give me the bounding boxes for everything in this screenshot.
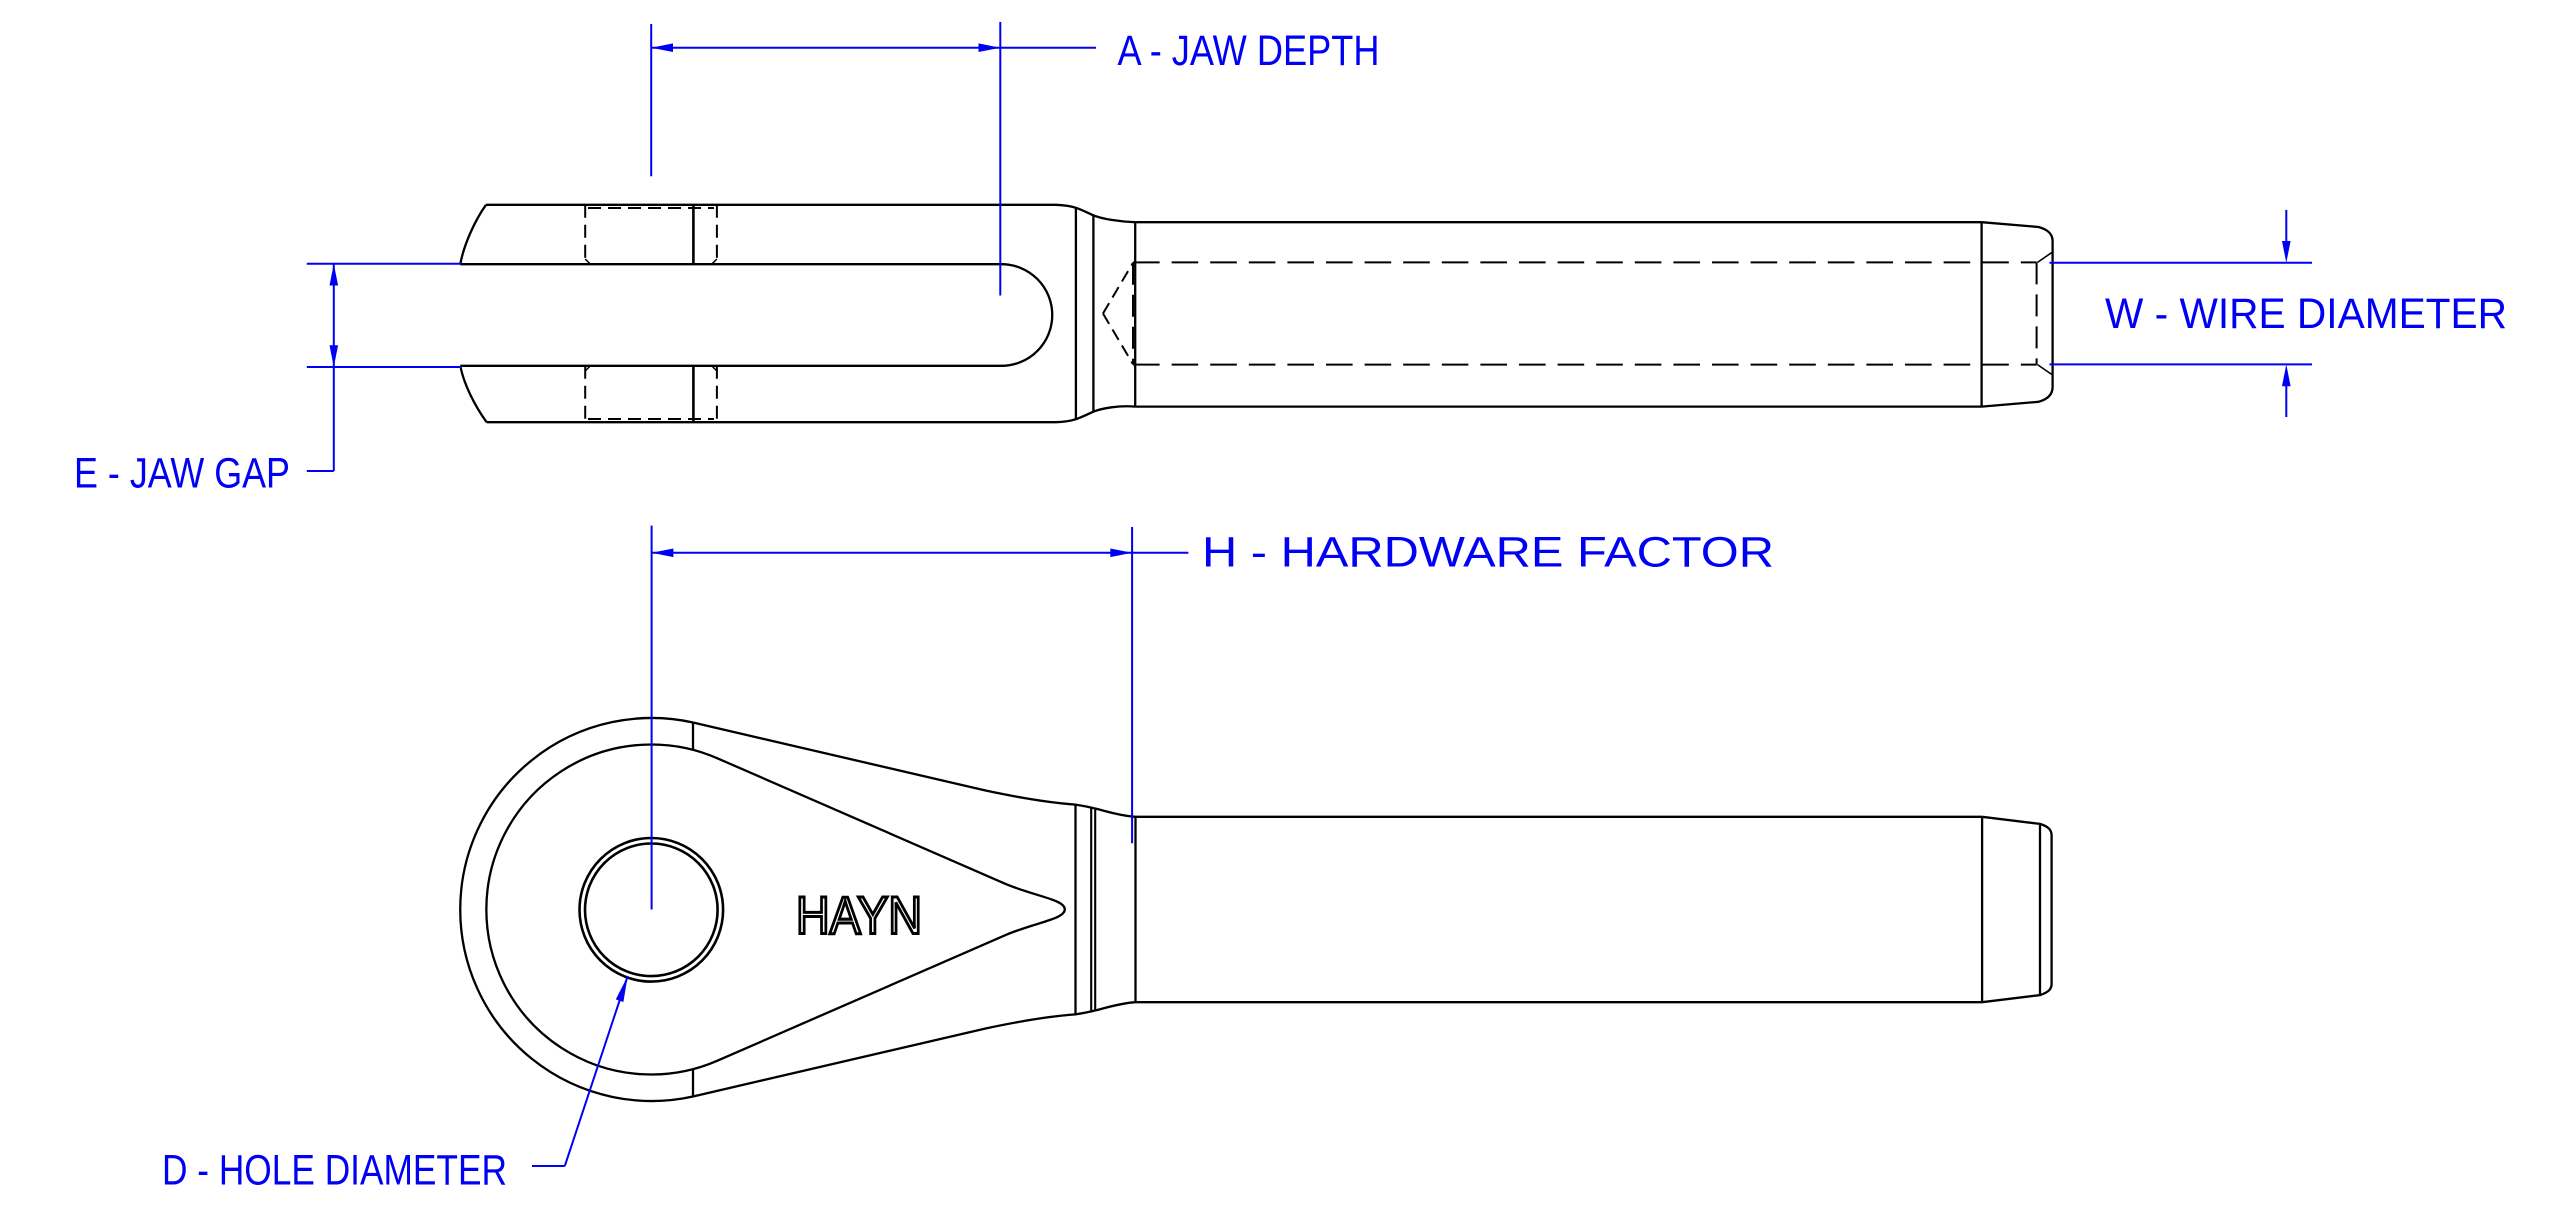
svg-text:D - HOLE DIAMETER: D - HOLE DIAMETER — [162, 1147, 507, 1195]
svg-text:H - HARDWARE FACTOR: H - HARDWARE FACTOR — [1202, 529, 1774, 577]
svg-text:W - WIRE DIAMETER: W - WIRE DIAMETER — [2105, 290, 2507, 338]
svg-text:HAYN: HAYN — [796, 887, 922, 946]
svg-text:A - JAW DEPTH: A - JAW DEPTH — [1118, 27, 1380, 75]
svg-text:E - JAW GAP: E - JAW GAP — [74, 450, 290, 498]
